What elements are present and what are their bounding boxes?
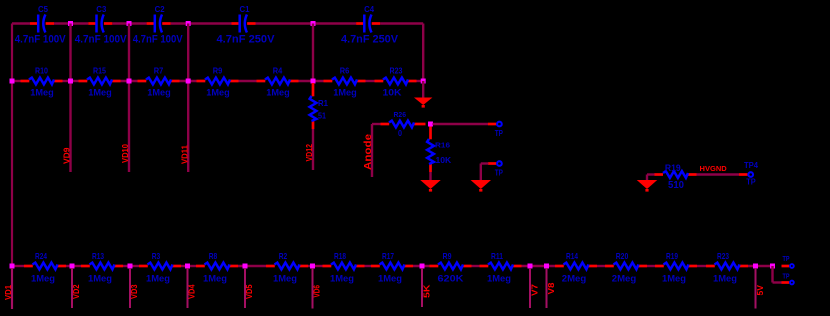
- svg-text:R13: R13: [92, 251, 104, 261]
- svg-text:R1: R1: [318, 98, 328, 108]
- junction bottom node x12: [10, 264, 15, 269]
- resistor R19 510: [655, 163, 697, 191]
- svg-text:2Meg: 2Meg: [562, 273, 587, 284]
- ground GND mid1: [420, 180, 441, 192]
- resistor R1 51 (vertical): [310, 83, 329, 129]
- svg-text:HVGND: HVGND: [700, 164, 728, 173]
- junction bottom node x130: [128, 264, 133, 269]
- svg-text:R7: R7: [154, 66, 164, 76]
- junction row1 node x188.2: [186, 79, 191, 84]
- svg-text:10K: 10K: [436, 155, 453, 165]
- wire TP5 wire: [481, 162, 489, 164]
- wire row1 seg1: [12, 80, 21, 82]
- svg-text:4.7nF 100V: 4.7nF 100V: [15, 34, 67, 46]
- resistor R10 1Meg: [21, 66, 63, 99]
- svg-text:1Meg: 1Meg: [487, 273, 511, 284]
- svg-text:2Meg: 2Meg: [612, 273, 637, 284]
- svg-text:R14: R14: [566, 251, 578, 261]
- resistor R7 1Meg: [138, 66, 180, 99]
- svg-text:R19: R19: [665, 163, 681, 173]
- svg-text:1Meg: 1Meg: [378, 273, 402, 284]
- resistor R17 1Meg: [371, 251, 413, 285]
- wire tap VD10: [128, 24, 130, 173]
- svg-text:R19: R19: [666, 251, 678, 261]
- junction row1 node x423.2: [421, 79, 426, 84]
- junction bottom node x546.5: [544, 264, 549, 269]
- junction mid node: [428, 122, 433, 127]
- wire bottom seg4: [181, 265, 196, 267]
- svg-text:51: 51: [318, 111, 326, 121]
- resistor R9 1Meg: [197, 66, 239, 99]
- svg-text:Anode: Anode: [363, 133, 374, 170]
- svg-text:R24: R24: [35, 251, 47, 261]
- resistor R11 1Meg: [480, 251, 522, 285]
- port TP4 lead: [739, 173, 747, 176]
- wire row1 seg3: [121, 80, 138, 82]
- resistor R23 10K: [375, 66, 417, 99]
- svg-text:1Meg: 1Meg: [273, 273, 297, 284]
- svg-text:R26: R26: [394, 110, 407, 119]
- svg-text:VD11: VD11: [180, 144, 189, 164]
- junction top node x129: [127, 21, 132, 26]
- wire row1 seg8: [417, 80, 424, 82]
- svg-text:R20: R20: [616, 251, 629, 261]
- svg-text:TP: TP: [783, 256, 790, 263]
- svg-text:VD12: VD12: [305, 144, 314, 162]
- resistor R20 2Meg: [605, 251, 647, 285]
- capacitor C5 4.7nF 100V: [15, 4, 67, 46]
- wire TPb run: [773, 281, 783, 283]
- svg-text:10K: 10K: [383, 87, 402, 98]
- wire top rail seg1: [12, 22, 30, 24]
- wire row1 seg6: [299, 80, 324, 82]
- wire gndR to R19: [647, 173, 655, 175]
- wire tap VD9: [69, 24, 71, 173]
- ground GND mid2: [471, 180, 492, 192]
- svg-text:5V: 5V: [756, 284, 765, 295]
- wire anode stub: [371, 124, 373, 177]
- wire tap node4: [312, 24, 314, 82]
- resistor R2 1Meg: [266, 251, 308, 285]
- svg-text:TP: TP: [746, 177, 756, 186]
- wire top rail seg5: [256, 22, 357, 24]
- svg-text:V7: V7: [531, 283, 540, 296]
- svg-text:4.7nF 250V: 4.7nF 250V: [341, 34, 399, 46]
- wire TP5 drop: [480, 164, 482, 181]
- capacitor C4 4.7nF 250V: [341, 4, 399, 46]
- resistor R26 0: [381, 110, 426, 138]
- wire top rail right drop: [422, 24, 424, 82]
- svg-text:R23: R23: [390, 66, 403, 76]
- svg-text:VD6: VD6: [313, 285, 322, 298]
- svg-text:TP: TP: [495, 129, 504, 138]
- svg-text:R16: R16: [435, 140, 450, 149]
- port TPa: [790, 264, 794, 268]
- junction bottom node x755.5: [753, 264, 758, 269]
- wire bottom seg8: [413, 265, 430, 267]
- svg-text:R10: R10: [35, 66, 48, 76]
- wire bottom stub x546.5: [546, 268, 548, 308]
- svg-text:R18: R18: [334, 251, 346, 261]
- svg-text:VD4: VD4: [188, 284, 197, 299]
- junction bottom node x422: [420, 264, 425, 269]
- svg-text:C2: C2: [155, 4, 165, 14]
- wire bottom seg6: [308, 265, 323, 267]
- port TP3 lead: [488, 123, 496, 126]
- svg-text:R6: R6: [340, 66, 350, 76]
- port TPb: [790, 281, 794, 285]
- svg-text:VD2: VD2: [72, 284, 81, 299]
- resistor R8 1Meg: [196, 251, 238, 285]
- junction row1 node x129: [127, 79, 132, 84]
- wire bottom seg2: [66, 265, 81, 267]
- wire top rail seg2: [54, 22, 89, 24]
- wire bottom stub x312.5: [312, 268, 314, 309]
- wire bottom stub x72: [71, 268, 73, 308]
- port TPa lead: [782, 265, 790, 268]
- svg-text:1Meg: 1Meg: [146, 273, 170, 284]
- svg-text:4.7nF 250V: 4.7nF 250V: [217, 34, 276, 46]
- svg-text:1Meg: 1Meg: [333, 87, 357, 98]
- svg-text:1Meg: 1Meg: [203, 273, 227, 284]
- wire tap VD11: [187, 24, 189, 173]
- junction row1 node x70.5: [68, 79, 73, 84]
- wire R1 tail: [312, 129, 314, 170]
- svg-text:0: 0: [398, 128, 402, 138]
- port TP5 lead: [488, 162, 496, 165]
- junction top node x188.2: [186, 21, 191, 26]
- svg-text:R23: R23: [717, 251, 729, 261]
- junction row1 node x12: [10, 79, 15, 84]
- svg-text:C4: C4: [364, 4, 374, 14]
- svg-text:TP4: TP4: [744, 161, 759, 170]
- svg-text:R3: R3: [152, 251, 161, 261]
- wire bottom seg5: [238, 265, 266, 267]
- svg-text:TP: TP: [495, 168, 504, 177]
- svg-text:VD10: VD10: [121, 143, 130, 163]
- wire anode corner: [372, 123, 381, 125]
- wire bottom stub x245: [244, 268, 246, 308]
- wire bottom stub x755.5: [755, 268, 757, 309]
- svg-text:1Meg: 1Meg: [330, 273, 354, 284]
- wire bottom stub x130: [129, 268, 131, 308]
- resistor R16 10K (vertical): [427, 127, 452, 173]
- wire left rail: [11, 24, 13, 310]
- svg-text:VD1: VD1: [4, 284, 13, 300]
- wire top rail seg4: [171, 22, 232, 24]
- wire bottom seg1: [12, 265, 24, 267]
- wire bottom stub x422: [421, 268, 423, 307]
- wire bottom seg11: [597, 265, 605, 267]
- svg-text:4.7nF 100V: 4.7nF 100V: [133, 34, 184, 46]
- ground GND top: [414, 98, 433, 108]
- svg-text:R4: R4: [273, 66, 283, 76]
- capacitor C1 4.7nF 250V: [217, 4, 276, 46]
- resistor R4 1Meg: [257, 66, 299, 99]
- resistor R13 1Meg: [81, 251, 123, 285]
- wire bottom stub x12: [11, 268, 13, 309]
- resistor R15 1Meg: [79, 66, 121, 99]
- wire row1 seg7: [366, 80, 375, 82]
- svg-text:510: 510: [668, 180, 684, 191]
- svg-text:1Meg: 1Meg: [88, 87, 112, 98]
- port TP3: [497, 122, 502, 127]
- junction top node x70.5: [68, 21, 73, 26]
- wire bottom stub x530: [529, 268, 531, 308]
- junction bottom node x312.5: [310, 264, 315, 269]
- wire bottom seg3: [123, 265, 139, 267]
- wire bottom seg10: [522, 265, 556, 267]
- junction bottom node x530: [528, 264, 533, 269]
- resistor R3 1Meg: [139, 251, 181, 285]
- svg-text:4.7nF 100V: 4.7nF 100V: [75, 34, 128, 46]
- svg-text:1Meg: 1Meg: [713, 273, 737, 284]
- wire gndR stem: [646, 175, 648, 181]
- ground GND right: [637, 180, 658, 192]
- svg-text:TP: TP: [783, 273, 790, 280]
- svg-text:R11: R11: [491, 251, 503, 261]
- svg-text:5K: 5K: [423, 284, 432, 298]
- svg-text:1Meg: 1Meg: [88, 273, 112, 284]
- resistor R18 1Meg: [323, 251, 365, 285]
- svg-text:VD5: VD5: [245, 284, 254, 299]
- capacitor C3 4.7nF 100V: [75, 4, 128, 46]
- port TP4: [748, 172, 753, 177]
- wire top rail seg3: [112, 22, 146, 24]
- svg-text:C1: C1: [240, 4, 250, 14]
- svg-text:VD3: VD3: [130, 284, 139, 299]
- wire row1 seg5: [239, 80, 257, 82]
- resistor R14 2Meg: [555, 251, 597, 285]
- wire bottom seg14: [748, 265, 773, 267]
- port TPb lead: [782, 281, 790, 284]
- junction top node x313: [311, 21, 316, 26]
- svg-text:V8: V8: [547, 282, 556, 295]
- svg-text:C3: C3: [96, 4, 106, 14]
- junction row1 node x313: [311, 79, 316, 84]
- resistor R19 1Meg: [655, 251, 697, 285]
- resistor R24 1Meg: [24, 251, 66, 285]
- wire TPb drop: [771, 266, 773, 283]
- svg-text:R2: R2: [279, 251, 288, 261]
- resistor R23 1Meg: [706, 251, 748, 285]
- svg-text:R17: R17: [382, 251, 394, 261]
- wire row1 seg2: [63, 80, 79, 82]
- wire gnd stem top: [422, 81, 424, 98]
- wire bottom seg13: [697, 265, 706, 267]
- resistor R9 620K: [430, 251, 472, 285]
- svg-text:1Meg: 1Meg: [147, 87, 171, 98]
- svg-text:R9: R9: [443, 251, 452, 261]
- svg-text:R8: R8: [209, 251, 218, 261]
- wire bottom seg9: [472, 265, 480, 267]
- svg-text:C5: C5: [38, 4, 48, 14]
- resistor R6 1Meg: [324, 66, 366, 99]
- wire R19 to TP4: [697, 173, 740, 175]
- svg-text:VD9: VD9: [63, 147, 72, 164]
- wire top rail seg6: [380, 22, 423, 24]
- svg-text:R9: R9: [213, 66, 223, 76]
- svg-text:620K: 620K: [438, 273, 464, 284]
- junction bottom node x772.5: [770, 264, 775, 269]
- svg-text:1Meg: 1Meg: [266, 87, 290, 98]
- wire bottom stub x187.5: [187, 268, 189, 308]
- svg-text:1Meg: 1Meg: [30, 87, 54, 98]
- svg-text:1Meg: 1Meg: [662, 273, 686, 284]
- port TP5: [497, 161, 502, 166]
- svg-text:1Meg: 1Meg: [206, 87, 230, 98]
- junction bottom node x187.5: [185, 264, 190, 269]
- wire bottom seg12: [647, 265, 655, 267]
- wire R16 to gnd: [429, 172, 431, 180]
- capacitor C2 4.7nF 100V: [133, 4, 184, 46]
- svg-text:R15: R15: [93, 66, 106, 76]
- wire mid to port TP3: [433, 123, 489, 125]
- wire bottom seg7: [365, 265, 372, 267]
- junction bottom node x72: [70, 264, 75, 269]
- junction bottom node x245: [243, 264, 248, 269]
- svg-text:1Meg: 1Meg: [31, 273, 55, 284]
- wire row1 seg4: [180, 80, 197, 82]
